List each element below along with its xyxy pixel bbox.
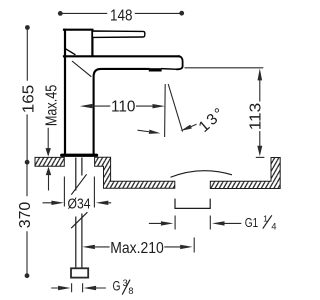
svg-text:113: 113 <box>247 103 264 131</box>
dim 148 line <box>60 12 181 14</box>
faucet body outline <box>64 30 183 154</box>
Max.210 leader tails <box>95 246 181 248</box>
G 3/8 arrows <box>58 286 71 290</box>
Ø34 arrows <box>51 201 64 205</box>
dim 113 arrows <box>258 68 263 80</box>
counter deck left block <box>35 157 64 166</box>
dim 165 end dots <box>25 25 30 30</box>
lever handle bar <box>92 31 144 37</box>
svg-text:Ø34: Ø34 <box>68 195 91 212</box>
drain bracket <box>175 199 210 209</box>
basin bottom right + right wall <box>210 158 280 189</box>
supply pipe lower segments <box>76 214 82 269</box>
handle block top and right edge <box>64 30 92 56</box>
counter deck right + basin step <box>95 157 175 188</box>
G1 1/4 arrow tails <box>149 222 241 224</box>
dim 110 line <box>92 105 154 107</box>
dim 113 extension line <box>185 67 264 69</box>
pipe break diagonal 2 <box>71 212 87 228</box>
outlet 13deg slanted line <box>168 84 182 132</box>
spout bottom and body right edge <box>94 69 149 153</box>
dim 165 line <box>26 28 28 163</box>
Max.210 right tick <box>193 238 195 253</box>
Max.45 leader lines <box>47 128 49 191</box>
basin water arc <box>171 171 233 178</box>
svg-text:370: 370 <box>17 202 34 229</box>
spout tip outline <box>177 56 182 69</box>
svg-text:8: 8 <box>128 286 133 296</box>
G1 1/4 ticks <box>175 216 210 230</box>
svg-text:4: 4 <box>271 222 276 232</box>
13deg leader arrows <box>149 130 161 134</box>
Ø34 extension lines <box>64 177 94 208</box>
aerator <box>149 68 162 71</box>
13deg leader right tail <box>191 124 197 126</box>
dim 370 bottom dot <box>25 273 30 278</box>
G 3/8 arrow tails <box>51 287 106 289</box>
Max.45 arrows <box>46 148 51 157</box>
svg-text:Max.45: Max.45 <box>44 85 61 127</box>
G 3/8 ticks <box>72 283 83 292</box>
G1 1/4 arrows <box>161 221 174 225</box>
svg-text:G1: G1 <box>245 215 259 230</box>
faucet body left edge <box>64 30 66 154</box>
pipe end connector box <box>71 268 88 277</box>
dim 113 line <box>259 80 261 148</box>
Ø34 arrow tails <box>43 202 112 204</box>
Max.210 arrows <box>82 245 95 249</box>
handle bottom chamfer line <box>65 48 76 55</box>
svg-text:G: G <box>113 278 121 293</box>
svg-text:148: 148 <box>110 8 133 25</box>
svg-text:110: 110 <box>111 98 136 115</box>
body accent diagonal <box>72 61 91 77</box>
supply pipe upper segments <box>76 158 82 191</box>
svg-text:165: 165 <box>21 85 38 114</box>
13deg leader left tail <box>138 130 150 132</box>
pipe break diagonal 1 <box>71 174 86 194</box>
outlet vertical reference line <box>164 84 167 137</box>
dim 113 bottom tick <box>256 156 265 158</box>
spout top line <box>64 55 179 57</box>
spout bottom right of aerator <box>162 68 177 71</box>
dim 370 line <box>26 162 28 276</box>
dim 110 arrows <box>80 104 93 108</box>
svg-text:Max.210: Max.210 <box>110 240 164 257</box>
dim 148 end dots <box>58 11 63 16</box>
base plate <box>60 154 98 157</box>
